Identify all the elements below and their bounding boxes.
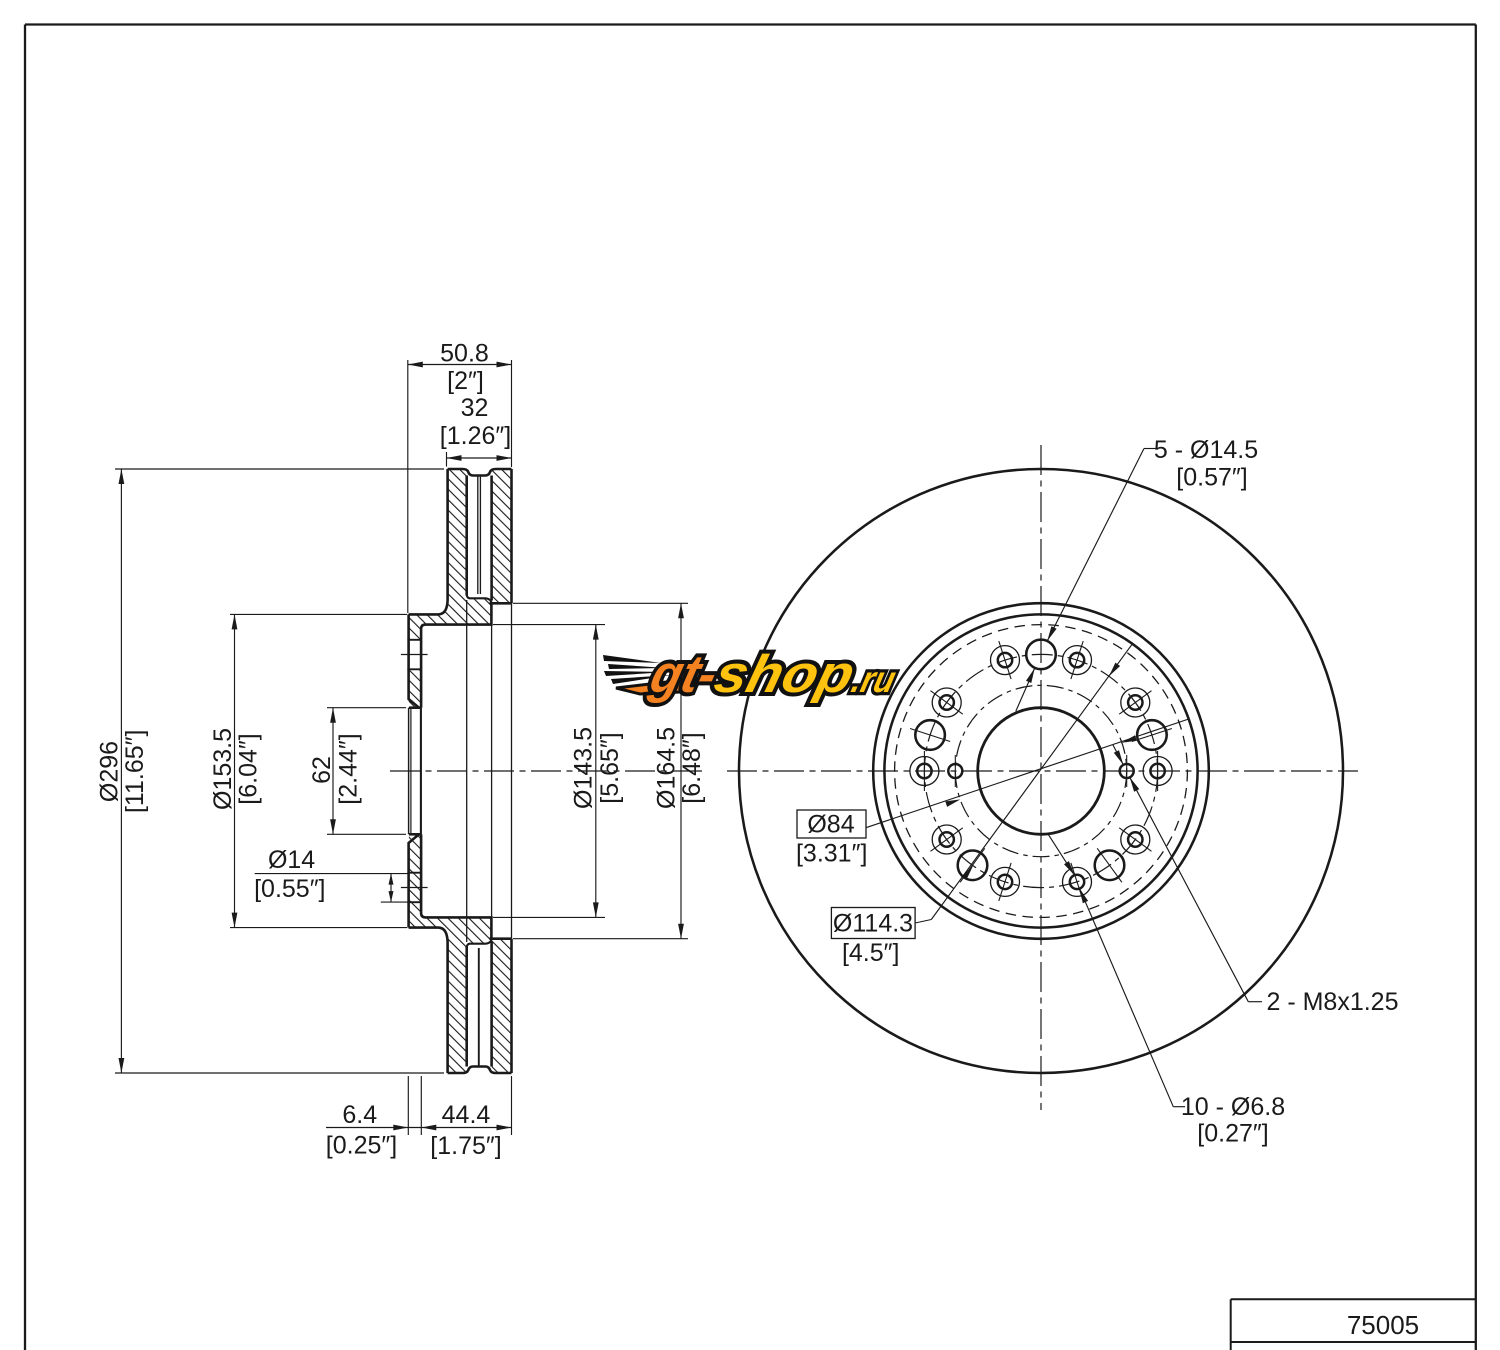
vent/service hole O6.8 at 144 deg [932, 688, 961, 717]
section: lug hole edges in face (up) [407, 639, 421, 641]
section: projection lines through hat cavity [466, 600, 468, 942]
svg-text:[4.5″]: [4.5″] [842, 939, 900, 967]
svg-text:[11.65″]: [11.65″] [121, 730, 149, 813]
svg-text:Ø84: Ø84 [807, 811, 854, 839]
section outline: vent channel outboard wall (up) [465, 476, 468, 596]
section outline: inboard plate inner edge O164.5 (low) [490, 937, 512, 940]
dim O296 [11.65"] disc OD [115, 468, 444, 470]
front view: hidden hat ID circle O143.5 [895, 625, 1188, 918]
section outline: vent channel floor bump (low) [467, 939, 492, 948]
svg-text:Ø153.5: Ø153.5 [209, 728, 237, 810]
vent/service hole O6.8 at 324 deg [1121, 825, 1150, 854]
section outline: disc bottom edge with vent notch [448, 1067, 512, 1074]
section: face silhouette lines across lug hole (low) [408, 873, 410, 903]
svg-text:[6.48″]: [6.48″] [678, 732, 706, 803]
vent/service hole O6.8 at 288 deg [1063, 867, 1092, 896]
dim O164.5 [6.48"] braking band ID [513, 602, 688, 604]
M8x1.25 hole at 180 deg [948, 764, 962, 778]
dim O153.5 [6.04"] hat OD [230, 613, 407, 615]
svg-text:[5.65″]: [5.65″] [596, 732, 624, 803]
svg-text:Ø14: Ø14 [268, 846, 315, 874]
svg-text:[2.44″]: [2.44″] [335, 733, 363, 804]
lug hole O14.5 at 90 deg [1026, 640, 1056, 670]
svg-text:50.8: 50.8 [440, 340, 489, 368]
section outline: outboard plate outer face + cone + hat cylinder (low) [409, 928, 448, 1073]
section outline: vent channel outboard wall (low) [465, 947, 468, 1067]
section outline: outboard plate outer face + cone + hat cylinder (up) [409, 469, 448, 614]
M8x1.25 hole at 0 deg [1120, 764, 1134, 778]
svg-text:[3.31″]: [3.31″] [796, 840, 867, 868]
lug hole O14.5 at 18 deg [1137, 720, 1167, 750]
section: vent mid lines (vane far edges) (up) [477, 476, 479, 595]
svg-text:Ø296: Ø296 [96, 741, 124, 802]
svg-text:[1.75″]: [1.75″] [430, 1132, 501, 1160]
svg-text:44.4: 44.4 [442, 1101, 491, 1129]
front view: bolt circle O84 [955, 685, 1126, 856]
section: hatched inboard plate (lower half) [492, 939, 512, 1073]
section: lug hole centerline tick (low) [401, 887, 428, 889]
gt-shop.ru watermark logo [603, 645, 904, 704]
svg-text:[0.27″]: [0.27″] [1197, 1120, 1268, 1148]
section: hatched outboard plate + hat (upper half) [409, 469, 492, 708]
dim O84 [3.31"] boxed [797, 810, 866, 838]
dim 32 [1.26"] disc thickness [446, 452, 448, 467]
callout 5 - O14.5 [0.57"] [1144, 448, 1156, 450]
dim 6.4 [0.25"] + 44.4 [1.75"] bottom [407, 1076, 409, 1135]
section outline: vent channel inboard wall (up) [490, 476, 493, 601]
svg-text:[1.26″]: [1.26″] [440, 422, 511, 450]
front view: disc OD circle O296 [739, 469, 1343, 1073]
svg-text:[6.04″]: [6.04″] [235, 733, 263, 804]
section outline: inboard plate outer face (up) [510, 469, 513, 603]
section outline: vent channel inboard wall (low) [490, 942, 493, 1067]
section outline: inboard plate inner edge O164.5 (up) [490, 602, 512, 605]
vent/service hole O6.8 at 72 deg [1063, 646, 1092, 675]
front view: braking band ID circle O164.5 [873, 603, 1209, 939]
section outline: bore edge O62 (up) [409, 706, 421, 709]
svg-text:62: 62 [308, 756, 336, 784]
svg-text:2 - M8x1.25: 2 - M8x1.25 [1266, 988, 1398, 1016]
section outline: disc top edge with vent notch [448, 469, 512, 476]
vent/service hole O6.8 at 0 deg [1143, 757, 1172, 786]
section outline: hat face inner plane (up) [421, 603, 491, 707]
dim 62 [2.44"] bore [327, 707, 406, 709]
callout 10 - O6.8 [0.27"] [1173, 1106, 1185, 1108]
section outline: vent channel floor bump (up) [467, 595, 492, 604]
callout 2 - M8x1.25 [1248, 1001, 1262, 1003]
svg-text:75005: 75005 [1347, 1310, 1419, 1340]
lug bolt hole cutout (upper) [407, 640, 423, 670]
svg-text:Ø114.3: Ø114.3 [833, 910, 913, 938]
front view: horizontal centerline [727, 770, 1358, 772]
svg-text:[2″]: [2″] [447, 367, 484, 395]
svg-text:Ø164.5: Ø164.5 [653, 727, 681, 809]
title block [1231, 1298, 1476, 1300]
dim O143.5 [5.65"] hat ID [493, 624, 605, 626]
front view: center bore O62 [978, 708, 1105, 835]
svg-text:[0.57″]: [0.57″] [1176, 464, 1247, 492]
section: horizontal centerline [390, 770, 706, 772]
section: lug hole edges in face (low) [407, 872, 421, 874]
svg-text:[0.25″]: [0.25″] [326, 1132, 397, 1160]
front view: hat OD circle O153.5 [884, 614, 1197, 927]
vent/service hole O6.8 at 216 deg [932, 825, 961, 854]
lug hole O14.5 at 162 deg [915, 720, 945, 750]
vent/service hole O6.8 at 36 deg [1121, 688, 1150, 717]
section outline: inboard plate outer face (low) [510, 939, 513, 1073]
dim O14 [0.55"] lug hole [255, 873, 408, 875]
vent/service hole O6.8 at 252 deg [991, 867, 1020, 896]
svg-text:[0.55″]: [0.55″] [254, 875, 325, 903]
section outline: bore edge O62 (low) [409, 833, 421, 836]
section: hatched outboard plate + hat (lower half) [409, 834, 492, 1073]
front view: vertical centerline [1040, 445, 1042, 1110]
section outline: hat mounting face outer plane (low) [409, 834, 419, 927]
svg-text:6.4: 6.4 [342, 1101, 377, 1129]
section: hatched inboard plate (upper half) [492, 469, 512, 603]
section: vent mid lines (vane far edges) (low) [478, 948, 480, 1067]
section outline: hat mounting face outer plane (up) [409, 614, 419, 707]
dim O114.3 [4.5"] boxed [831, 908, 915, 939]
vent/service hole O6.8 at 180 deg [910, 757, 939, 786]
section: lug hole centerline tick (up) [401, 654, 428, 656]
section: bore silhouette verticals [408, 708, 410, 835]
section: face silhouette lines across lug hole (up) [408, 640, 410, 670]
svg-text:32: 32 [461, 394, 489, 422]
section outline: hat face inner plane (low) [421, 834, 491, 938]
dim 50.8 [2"] overall width [407, 360, 409, 613]
lug bolt hole cutout (lower) [407, 640, 423, 669]
lug hole O14.5 at 234 deg [958, 851, 988, 881]
svg-text:Ø143.5: Ø143.5 [569, 727, 597, 809]
vent/service hole O6.8 at 108 deg [991, 646, 1020, 675]
svg-text:shop: shop [709, 645, 861, 704]
svg-text:5 - Ø14.5: 5 - Ø14.5 [1154, 436, 1258, 464]
svg-text:10 - Ø6.8: 10 - Ø6.8 [1181, 1093, 1285, 1121]
drawing frame border [25, 23, 1476, 25]
front view: bolt circle O114.3 [924, 654, 1157, 887]
lug hole O14.5 at 306 deg [1095, 851, 1125, 881]
